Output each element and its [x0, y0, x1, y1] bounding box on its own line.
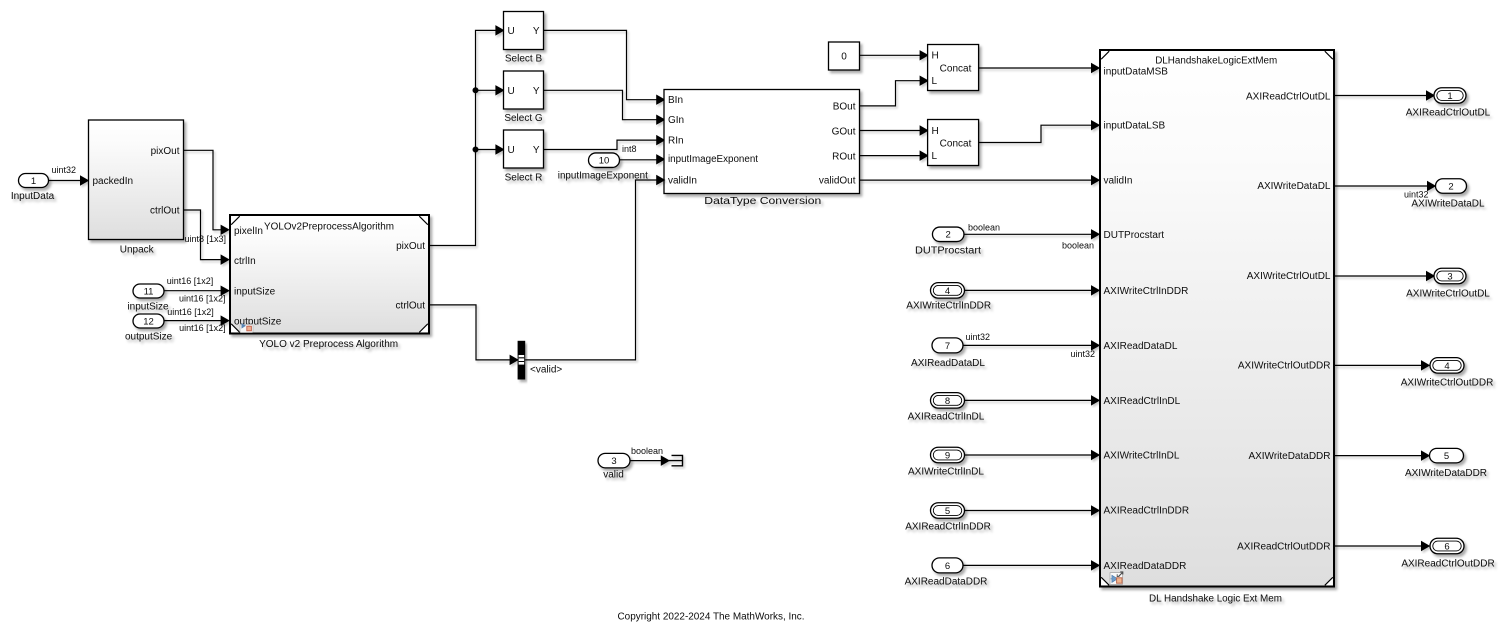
- svg-text:AXIReadCtrlInDDR: AXIReadCtrlInDDR: [1104, 506, 1190, 517]
- block Select G: [504, 71, 544, 124]
- svg-text:uint32: uint32: [1070, 349, 1095, 359]
- svg-text:AXIWriteCtrlOutDL: AXIWriteCtrlOutDL: [1247, 271, 1331, 282]
- svg-text:AXIReadCtrlOutDL: AXIReadCtrlOutDL: [1246, 91, 1331, 102]
- wire InputData to Unpack packedIn: [49, 176, 89, 184]
- svg-text:inputSize: inputSize: [234, 286, 276, 297]
- svg-text:Select G: Select G: [504, 113, 543, 124]
- svg-text:packedIn: packedIn: [93, 176, 134, 187]
- svg-text:5: 5: [945, 506, 950, 517]
- svg-text:AXIWriteDataDDR: AXIWriteDataDDR: [1248, 451, 1330, 462]
- svg-text:Y: Y: [533, 86, 540, 97]
- inport 5 AXIReadCtrlInDDR: [905, 503, 991, 533]
- block Concat2: [928, 120, 979, 166]
- svg-text:DataType Conversion: DataType Conversion: [704, 196, 821, 207]
- svg-text:uint8 [1x3]: uint8 [1x3]: [185, 234, 227, 244]
- inport 8 AXIReadCtrlInDL: [908, 393, 985, 423]
- svg-text:DUTProcstart: DUTProcstart: [915, 246, 981, 257]
- svg-text:AXIWriteCtrlInDDR: AXIWriteCtrlInDDR: [1104, 286, 1189, 297]
- svg-text:U: U: [508, 86, 515, 97]
- svg-text:L: L: [932, 76, 938, 87]
- svg-text:uint16 [1x2]: uint16 [1x2]: [167, 276, 214, 286]
- constant 0: [829, 42, 860, 70]
- inport 2 DUTProcstart: [915, 227, 981, 256]
- svg-text:2: 2: [946, 230, 951, 241]
- block Unpack: [89, 120, 184, 256]
- svg-text:AXIWriteCtrlInDDR: AXIWriteCtrlInDDR: [906, 301, 991, 312]
- svg-text:int8: int8: [622, 144, 637, 154]
- svg-text:U: U: [508, 26, 515, 37]
- wire DL AXIWriteDataDDR to outport 5: [1335, 451, 1430, 459]
- svg-text:AXIWriteCtrlOutDDR: AXIWriteCtrlOutDDR: [1238, 360, 1331, 371]
- wire DL AXIWriteDataDL to outport 2: [1335, 182, 1436, 190]
- svg-text:BOut: BOut: [833, 101, 856, 112]
- svg-text:uint16 [1x2]: uint16 [1x2]: [167, 307, 214, 317]
- svg-text:YOLO v2 Preprocess Algorithm: YOLO v2 Preprocess Algorithm: [259, 339, 398, 350]
- svg-text:AXIReadCtrlOutDL: AXIReadCtrlOutDL: [1406, 108, 1491, 119]
- inport 4 AXIWriteCtrlInDDR: [906, 283, 991, 312]
- wire Select B Y to DataType BIn: [544, 30, 665, 104]
- label uint32 near port 7: [966, 332, 991, 342]
- svg-text:9: 9: [945, 450, 950, 461]
- wire valid to terminator: [630, 456, 669, 464]
- svg-text:Select R: Select R: [505, 172, 543, 183]
- wire YOLO ctrlOut to bus selector: [430, 305, 518, 364]
- wire Unpack ctrlOut to YOLO ctrlIn: [184, 210, 229, 264]
- svg-text:6: 6: [945, 561, 950, 572]
- svg-text:AXIReadCtrlInDL: AXIReadCtrlInDL: [908, 411, 985, 422]
- svg-text:2: 2: [1448, 181, 1453, 192]
- wire DL AXIReadCtrlOutDL to outport 1: [1335, 91, 1435, 99]
- inport 7 AXIReadDataDL: [911, 338, 985, 369]
- svg-text:DUTProcstart: DUTProcstart: [1104, 230, 1165, 241]
- wire DL AXIReadCtrlOutDDR to outport 6: [1335, 542, 1430, 550]
- wire outputSize to YOLO: [164, 316, 229, 324]
- svg-text:pixelIn: pixelIn: [234, 226, 263, 237]
- svg-text:11: 11: [144, 286, 154, 297]
- wire DataType BOut to Concat1 L: [860, 77, 928, 106]
- wire Select G Y to DataType GIn: [544, 90, 665, 124]
- svg-text:DL Handshake Logic Ext Mem: DL Handshake Logic Ext Mem: [1149, 594, 1282, 605]
- svg-text:Concat: Concat: [940, 139, 972, 150]
- svg-text:validIn: validIn: [1104, 176, 1133, 187]
- svg-text:AXIWriteCtrlInDL: AXIWriteCtrlInDL: [1104, 451, 1180, 462]
- label uint32 near DL AXIReadDataDL: [1070, 349, 1095, 359]
- label boolean on valid wire: [631, 446, 663, 456]
- outport 3 AXIWriteCtrlOutDL: [1406, 268, 1490, 299]
- svg-text:H: H: [932, 51, 939, 62]
- svg-text:AXIReadCtrlOutDDR: AXIReadCtrlOutDDR: [1237, 541, 1330, 552]
- svg-text:uint16 [1x2]: uint16 [1x2]: [179, 293, 226, 303]
- badge on YOLO block: [240, 323, 253, 333]
- svg-text:1: 1: [1447, 91, 1452, 102]
- svg-text:7: 7: [945, 341, 950, 352]
- svg-text:H: H: [932, 126, 939, 137]
- wire inputSize to YOLO: [164, 287, 229, 295]
- label uint32 near outport 2: [1404, 190, 1429, 200]
- outport 4 AXIWriteCtrlOutDDR: [1401, 358, 1494, 389]
- svg-text:inputDataLSB: inputDataLSB: [1104, 121, 1166, 132]
- svg-text:12: 12: [143, 316, 154, 327]
- svg-text:boolean: boolean: [968, 222, 1000, 232]
- svg-text:ROut: ROut: [832, 152, 856, 163]
- outport 5 AXIWriteDataDDR: [1405, 448, 1487, 479]
- svg-text:boolean: boolean: [631, 446, 663, 456]
- label <valid>: [530, 364, 562, 375]
- wire DL AXIWriteCtrlOutDDR to outport 4: [1335, 361, 1430, 369]
- label uint16 [1x2] below outputSize wire: [179, 323, 226, 333]
- inport 3 valid: [598, 453, 630, 480]
- label int8: [622, 144, 637, 154]
- svg-text:3: 3: [1447, 271, 1452, 282]
- inport 6 AXIReadDataDDR: [905, 558, 988, 588]
- svg-text:InputData: InputData: [11, 191, 55, 202]
- svg-text:GOut: GOut: [832, 126, 856, 137]
- wire port4 to DL: [965, 286, 1100, 294]
- label uint32 on InputData wire: [52, 165, 77, 175]
- svg-text:6: 6: [1444, 541, 1449, 552]
- svg-text:validOut: validOut: [819, 176, 856, 187]
- outport 1 AXIReadCtrlOutDL: [1406, 88, 1491, 119]
- svg-text:AXIWriteCtrlInDL: AXIWriteCtrlInDL: [908, 466, 984, 477]
- block YOLOv2PreprocessAlgorithm: [230, 215, 429, 350]
- svg-text:outputSize: outputSize: [125, 332, 173, 343]
- wire DL AXIWriteCtrlOutDL to outport 3: [1335, 272, 1435, 280]
- svg-text:Y: Y: [533, 26, 540, 37]
- wire YOLO pixOut to Select blocks (with branches): [430, 26, 504, 245]
- inport 10 inputImageExponent: [558, 153, 648, 182]
- svg-text:8: 8: [945, 396, 950, 407]
- wire port7 to DL: [963, 341, 1099, 349]
- svg-text:AXIReadCtrlInDL: AXIReadCtrlInDL: [1104, 396, 1181, 407]
- svg-text:AXIReadDataDL: AXIReadDataDL: [1104, 341, 1178, 352]
- svg-text:DLHandshakeLogicExtMem: DLHandshakeLogicExtMem: [1155, 56, 1277, 67]
- wire port6 to DL: [963, 561, 1099, 569]
- svg-text:AXIWriteDataDL: AXIWriteDataDL: [1411, 199, 1485, 210]
- svg-text:3: 3: [611, 456, 616, 467]
- wire Concat1 to DL inputDataMSB: [979, 64, 1099, 72]
- label uint16 [1x2] above outputSize wire: [167, 307, 214, 317]
- block DataType Conversion: [664, 90, 860, 208]
- svg-text:1: 1: [31, 176, 36, 187]
- svg-text:Unpack: Unpack: [120, 245, 155, 256]
- svg-text:AXIWriteDataDDR: AXIWriteDataDDR: [1405, 468, 1487, 479]
- svg-text:AXIReadDataDDR: AXIReadDataDDR: [1104, 561, 1187, 572]
- svg-text:AXIWriteCtrlOutDDR: AXIWriteCtrlOutDDR: [1401, 378, 1494, 389]
- block Concat1: [928, 45, 979, 91]
- label uint16 [1x2] above inputSize wire: [167, 276, 214, 286]
- wire Select R Y to DataType RIn: [544, 136, 665, 150]
- bus selector bar: [518, 341, 526, 380]
- svg-text:boolean: boolean: [1062, 240, 1094, 250]
- wire constant 0 to Concat1 H: [860, 51, 928, 59]
- svg-text:uint32: uint32: [966, 332, 991, 342]
- wire DataType validOut to DL validIn: [860, 176, 1100, 184]
- svg-text:valid: valid: [603, 470, 624, 481]
- block Select B: [504, 12, 544, 65]
- label uint8 [1x3] on pixOut wire: [185, 234, 227, 244]
- svg-text:uint16 [1x2]: uint16 [1x2]: [179, 323, 226, 333]
- svg-text:uint32: uint32: [52, 165, 77, 175]
- svg-text:<valid>: <valid>: [530, 364, 562, 375]
- svg-text:ctrlIn: ctrlIn: [234, 256, 256, 267]
- svg-text:inputSize: inputSize: [127, 302, 169, 313]
- svg-text:ctrlOut: ctrlOut: [396, 300, 426, 311]
- inport 12 outputSize: [125, 314, 173, 343]
- label boolean near DL DUTProcstart: [1062, 240, 1094, 250]
- svg-text:AXIReadDataDL: AXIReadDataDL: [911, 358, 985, 369]
- svg-text:Y: Y: [533, 145, 540, 156]
- wire DUTProcstart to DL: [964, 230, 1099, 238]
- svg-text:U: U: [508, 145, 515, 156]
- svg-text:ctrlOut: ctrlOut: [150, 205, 180, 216]
- svg-text:AXIReadCtrlInDDR: AXIReadCtrlInDDR: [905, 522, 991, 533]
- svg-text:inputImageExponent: inputImageExponent: [558, 171, 648, 182]
- label boolean near port 2: [968, 222, 1000, 232]
- wire port9 to DL: [965, 451, 1100, 459]
- block Select R: [504, 130, 544, 183]
- wire Unpack pixOut to YOLO pixelIn: [184, 150, 229, 234]
- label uint16 [1x2] below inputSize wire: [179, 293, 226, 303]
- terminator: [669, 455, 683, 465]
- wire inputImageExponent to DataType: [620, 155, 665, 163]
- svg-text:BIn: BIn: [668, 95, 683, 106]
- svg-text:YOLOv2PreprocessAlgorithm: YOLOv2PreprocessAlgorithm: [264, 222, 394, 233]
- svg-text:L: L: [932, 151, 938, 162]
- block DLHandshakeLogicExtMem: [1100, 50, 1334, 605]
- svg-text:AXIReadDataDDR: AXIReadDataDDR: [905, 577, 988, 588]
- svg-text:5: 5: [1444, 451, 1449, 462]
- svg-text:pixOut: pixOut: [151, 146, 180, 157]
- svg-text:AXIWriteDataDL: AXIWriteDataDL: [1257, 181, 1331, 192]
- svg-text:0: 0: [841, 52, 847, 63]
- wire port5 to DL: [965, 506, 1100, 514]
- wire bus selector valid to DataType validIn: [525, 176, 664, 360]
- copyright annotation: [618, 612, 805, 623]
- svg-text:Concat: Concat: [940, 64, 972, 75]
- wire port8 to DL: [965, 396, 1100, 404]
- svg-text:AXIWriteCtrlOutDL: AXIWriteCtrlOutDL: [1406, 288, 1490, 299]
- inport 1 InputData: [11, 174, 55, 203]
- badge on DL block: [1110, 572, 1123, 585]
- svg-text:validIn: validIn: [668, 175, 697, 186]
- svg-text:AXIReadCtrlOutDDR: AXIReadCtrlOutDDR: [1401, 558, 1494, 569]
- svg-text:Select B: Select B: [505, 54, 543, 65]
- wire DataType GOut to Concat2 H: [860, 126, 928, 134]
- wire Concat2 to DL inputDataLSB: [979, 121, 1099, 143]
- svg-text:4: 4: [1444, 361, 1449, 372]
- svg-text:Copyright 2022-2024 The MathWo: Copyright 2022-2024 The MathWorks, Inc.: [618, 612, 805, 623]
- inport 11 inputSize: [127, 284, 169, 313]
- outport 2 AXIWriteDataDL: [1411, 179, 1485, 210]
- svg-text:RIn: RIn: [668, 136, 684, 147]
- outport 6 AXIReadCtrlOutDDR: [1401, 538, 1494, 569]
- inport 9 AXIWriteCtrlInDL: [908, 447, 984, 477]
- svg-text:GIn: GIn: [668, 115, 684, 126]
- svg-text:inputImageExponent: inputImageExponent: [668, 154, 758, 165]
- wire DataType ROut to Concat2 L: [860, 151, 928, 159]
- svg-text:inputDataMSB: inputDataMSB: [1104, 67, 1169, 78]
- svg-text:10: 10: [599, 156, 610, 167]
- svg-text:4: 4: [945, 286, 950, 297]
- svg-text:pixOut: pixOut: [396, 241, 425, 252]
